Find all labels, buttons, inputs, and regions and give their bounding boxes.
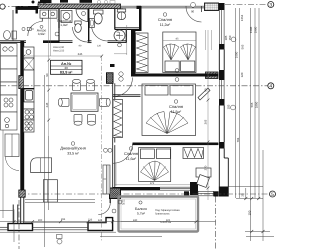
svg-text:565: 565 [241,44,245,49]
toilet wc1 [75,21,82,32]
washbasin bath [90,19,95,28]
dining table [71,93,98,111]
svg-text:240: 240 [133,219,138,222]
pillar balcony hatch [110,188,121,199]
svg-text:11,2м²: 11,2м² [160,23,171,27]
shelf tv unit [103,165,110,194]
svg-text:Нпп=2,55: Нпп=2,55 [53,50,65,53]
wall hatched pier right mid [206,72,219,79]
svg-text:4: 4 [269,84,272,90]
svg-text:25: 25 [241,193,245,197]
wall right side piers [219,3,229,197]
door arc balcony [98,203,110,215]
wall wc1/bath [88,9,90,42]
kitchen counter [24,47,35,132]
grid dashdot vertical x19 [18,200,20,249]
chair desk tilted [197,175,210,188]
svg-text:1690: 1690 [235,51,239,58]
door arc bedroom3 [113,144,133,164]
wall stub vestibule [110,64,115,67]
label wc1 [57,19,72,27]
neighbour wall [12,10,14,41]
wall hatch block left lower [19,190,25,197]
wall top-right crosshatch pier [205,3,219,11]
wall horizontal under wet rooms [0,41,126,43]
svg-text:120: 120 [98,219,103,222]
wall right double mid1 [219,50,224,71]
chairs dining [58,79,110,125]
label bedroom3 [124,147,138,161]
svg-text:245: 245 [78,52,83,56]
label living [60,142,86,156]
svg-text:120: 120 [97,45,102,48]
blanket fan bedroom3 [141,161,169,181]
svg-text:296: 296 [61,218,66,221]
svg-text:3,9м²: 3,9м² [38,32,45,36]
corner unit wc1 [76,9,88,22]
svg-text:33,5 м²: 33,5 м² [67,152,79,156]
wall black bar left of hatch [16,6,39,10]
duct black [120,9,124,12]
svg-text:20: 20 [65,66,69,70]
svg-text:105: 105 [227,104,231,109]
dimension verticals right [229,8,271,241]
wall left main vertical [20,41,24,197]
footing pier bottom-left [8,224,33,231]
door arc bath [92,25,108,41]
grid dashdot line A3 [225,4,268,6]
wardrobe bedroom3 [183,148,204,159]
bed bedroom1 [163,32,196,73]
pillar hall hatch [107,73,114,84]
svg-text:Спалня: Спалня [124,151,138,156]
svg-text:150: 150 [248,210,252,215]
window right wall bedroom2 [219,80,224,99]
dimension ticks bottom [13,197,265,233]
symbol below shower [118,43,122,47]
svg-text:565: 565 [250,102,254,107]
stove burners [25,50,34,131]
wall antre/wc1 [58,9,60,28]
sofa living [31,158,52,173]
svg-text:83,9 м²: 83,9 м² [60,71,73,75]
dimension numbers bottom [38,182,171,222]
svg-text:90: 90 [204,88,208,92]
window living south [0,227,88,230]
bed bedroom3 [139,148,171,182]
label balcony note [122,200,180,225]
window strip right of pier [184,191,219,196]
svg-text:300: 300 [38,219,43,222]
svg-text:370: 370 [204,165,208,170]
bed bedroom2 [142,84,196,136]
top unit fixtures [97,0,115,3]
label antre [37,25,47,36]
grid dashdot line A4 [0,85,268,87]
neighbour counters [1,44,18,131]
blanket fan bedroom2 [146,112,188,134]
grid dashdot line A5 [20,193,269,195]
svg-text:Балкон: Балкон [135,207,147,211]
wall neighbour bottom [13,205,18,224]
wall shower niche east [125,30,127,43]
grid bubble 3 [268,2,274,8]
wall antre lower [58,28,60,43]
svg-text:704: 704 [236,137,240,142]
label bedroom2 [169,100,183,114]
neighbour furniture lower [5,134,19,157]
svg-text:376: 376 [150,182,155,185]
door arc bedroom1 entry top [186,7,202,23]
wall bedroom3 bottom [113,187,160,190]
svg-text:Спалня: Спалня [158,17,172,22]
area table [51,60,83,74]
svg-text:11,6м²: 11,6м² [126,157,137,161]
axis vertical x102 [101,56,103,242]
svg-text:3: 3 [269,2,272,8]
svg-text:1380: 1380 [249,26,253,33]
storage antre [40,10,49,18]
svg-text:1980: 1980 [254,26,258,33]
svg-text:h=120 см: h=120 см [160,221,171,224]
blanket fan bedroom1 [164,44,196,61]
wall bedroom2/3 divider [133,143,219,146]
neighbour toilet [4,31,11,40]
small symbols [22,2,236,244]
wardrobe bedroom1 [136,33,149,73]
wall bath/wc2 [114,9,116,30]
wire inner face living south [25,221,106,223]
svg-text:Дневна/Кухня: Дневна/Кухня [60,146,86,151]
svg-text:Спалня: Спалня [169,104,183,109]
texts shower niche [117,31,120,37]
grid bubble 4 [268,83,274,89]
wall hatch block left upper [19,76,25,89]
door arc vestibule [114,78,133,97]
door arc entrance [28,22,43,37]
note above table [53,46,65,53]
dimension chain bottom [0,75,274,247]
svg-text:245: 245 [45,102,49,107]
balcony outline [119,197,199,232]
top edge marks [32,0,93,4]
door arc wc1 [73,27,88,42]
svg-text:1364: 1364 [240,14,244,21]
svg-text:1890: 1890 [255,101,259,108]
duct black bath [96,11,100,14]
wall stub below entry bar [36,10,39,14]
svg-text:365: 365 [204,119,208,124]
svg-text:233: 233 [88,218,93,221]
wall wc2 bottom [115,28,139,30]
wall vestibule bottom [113,95,141,97]
wall dark segment under antre [43,41,59,44]
svg-text:1,3м²: 1,3м² [60,23,67,27]
wardrobe bedroom2 [113,100,123,138]
svg-text:90: 90 [45,73,49,77]
svg-text:120: 120 [240,72,244,77]
dimension texts rotated [224,14,259,215]
wire top thin wall bedroom1 [121,6,205,8]
dimension interior [24,10,212,200]
grid dashdot vertical x215 [215,197,217,249]
svg-text:5: 5 [271,192,274,198]
window right wall bedroom1 [219,10,224,44]
wall bedroom1 left jogged [131,6,142,74]
window bedroom3 south [160,187,190,190]
wall bedroom3 left [113,145,115,188]
toilet wc2 [117,9,125,20]
label bedroom1 [158,13,172,27]
sink kitchen [26,91,33,101]
footing pier bottom-mid [88,218,113,231]
wall hatched top strip [38,4,121,9]
label balcony [135,201,147,216]
grid bubble 5 [270,191,276,197]
wall corridor vertical [113,83,115,142]
grid bubble left [0,4,5,9]
toilet bath [94,10,104,24]
shower bath [114,30,125,41]
svg-text:Гранитогрес: Гранитогрес [155,213,170,216]
wall divider bedrooms horizontal [131,74,219,77]
line neighbour terrace [0,209,13,211]
sink counter dark edge [24,89,34,102]
svg-text:90: 90 [191,10,195,14]
washer wc1 [61,11,72,23]
svg-text:5,7м²: 5,7м² [137,212,146,216]
svg-text:11,5м²: 11,5м² [171,110,182,114]
window open leaf tilted [198,88,210,100]
desk bedroom3 [196,168,211,177]
wall right double mid2 [219,106,228,187]
wall pier balcony right [190,182,198,195]
wall cap top [137,6,142,9]
